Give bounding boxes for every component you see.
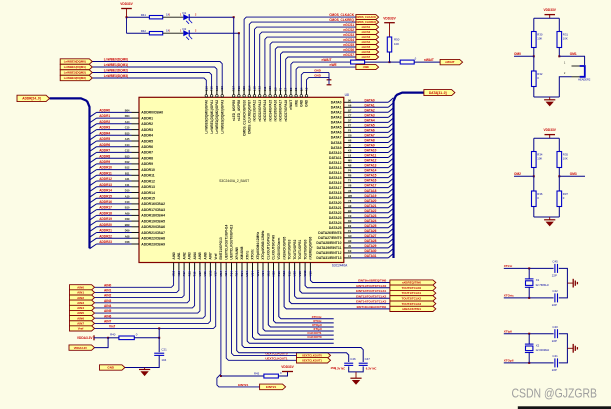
pin nGCS7/GPA18 (top) xyxy=(285,90,287,95)
svg-text:S3C2440A: S3C2440A xyxy=(332,263,348,267)
svg-text:10K: 10K xyxy=(394,42,399,46)
pin AIN7 (bottom) xyxy=(209,263,211,271)
svg-text:DATA2: DATA2 xyxy=(331,111,342,115)
wire LnWBE3(DQM3) xyxy=(92,78,206,90)
svg-text:ADDR18/CBA4: ADDR18/CBA4 xyxy=(141,214,165,218)
wire xyxy=(189,16,234,18)
net label LnWBE0(DQM0) xyxy=(60,59,92,64)
wire VDDi xyxy=(247,270,334,343)
wire DATA31 xyxy=(352,257,389,259)
svg-text:ADDR12: ADDR12 xyxy=(141,179,155,183)
svg-text:TOUT0/TCLK0: TOUT0/TCLK0 xyxy=(402,286,422,290)
svg-text:ADDR23/CBA9: ADDR23/CBA9 xyxy=(141,242,165,246)
wire DATA18 xyxy=(352,192,389,194)
net label TOUT2/TCLK2 xyxy=(390,296,436,301)
wire xyxy=(558,207,560,218)
wire XTOpll xyxy=(268,270,333,327)
pin nGCS3/GPA14 (top) xyxy=(264,90,266,95)
svg-text:nGCS5: nGCS5 xyxy=(343,43,354,47)
net label AIN4 xyxy=(70,305,95,310)
svg-text:DATA11: DATA11 xyxy=(365,154,377,158)
svg-text:UEXTCLKOUT0: UEXTCLKOUT0 xyxy=(302,354,322,358)
svg-text:DATA18: DATA18 xyxy=(329,191,342,195)
svg-text:R41: R41 xyxy=(141,13,147,17)
svg-text:XP/AIN9: XP/AIN9 xyxy=(235,247,239,260)
wire DATA6 xyxy=(352,131,389,133)
bus entry ADDR0 xyxy=(90,112,97,117)
net label nXBACK/TIN1 xyxy=(390,306,436,311)
wire DATA4 xyxy=(352,121,389,123)
svg-text:AIN7: AIN7 xyxy=(209,252,213,259)
svg-text:nGCS2/GPA13: nGCS2/GPA13 xyxy=(258,100,262,122)
wire xyxy=(94,337,108,339)
pin DATA31 (right) xyxy=(344,257,352,259)
pin ADDR10 (left) xyxy=(132,169,140,171)
svg-text:DATA10: DATA10 xyxy=(329,151,342,155)
bus entry DATA14 xyxy=(388,168,393,173)
bus entry DATA19 xyxy=(388,193,393,198)
pin TOUT1/GPB1 (bottom) xyxy=(299,263,301,271)
svg-text:DATA6: DATA6 xyxy=(331,131,342,135)
svg-text:V8: V8 xyxy=(348,189,352,193)
resistor R48 value 0 xyxy=(351,60,365,64)
svg-text:E7: E7 xyxy=(348,124,352,128)
pin DATA29 (right) xyxy=(344,247,352,249)
pin nWAIT (top) xyxy=(290,90,292,95)
junction Vref/RC xyxy=(158,327,160,329)
pin CMOS_CLKACK/GPB10 (top) xyxy=(243,90,245,95)
ground xyxy=(144,368,146,370)
svg-text:CSDN @GJZGRB: CSDN @GJZGRB xyxy=(512,387,598,401)
wire ADDR3 xyxy=(97,129,132,131)
wire xyxy=(390,61,401,63)
net label AIN7 xyxy=(70,321,95,326)
svg-text:22P: 22P xyxy=(552,303,557,307)
wire DATA30 xyxy=(352,252,389,254)
svg-text:B12: B12 xyxy=(125,166,130,170)
bus entry ADDR10 xyxy=(90,170,97,175)
svg-text:DATA29/EINT11: DATA29/EINT11 xyxy=(317,246,342,250)
svg-text:DATA13: DATA13 xyxy=(329,166,342,170)
pin ADDR0 (left) xyxy=(132,111,140,113)
bus entry ADDR20 xyxy=(90,227,97,232)
bus entry ADDR6 xyxy=(90,147,97,152)
svg-text:DATA0: DATA0 xyxy=(331,101,342,105)
svg-text:ADDR4: ADDR4 xyxy=(141,134,153,138)
pin AIN1 (bottom) xyxy=(178,263,180,271)
svg-text:XTIpll/OM4:12MHz: XTIpll/OM4:12MHz xyxy=(256,232,260,260)
svg-text:CLKOUT0/GPH9: CLKOUT0/GPH9 xyxy=(272,235,276,260)
pin nXBACK/GPB5 (bottom) xyxy=(283,263,285,271)
wire xyxy=(349,366,364,372)
svg-text:R8: R8 xyxy=(348,174,352,178)
bus entry DATA15 xyxy=(388,173,393,178)
pin ADDR22 (left) xyxy=(132,237,140,239)
bus entry ADDR12 xyxy=(90,181,97,186)
svg-text:32.768KHz: 32.768KHz xyxy=(536,283,550,287)
power VDD33V pull-up xyxy=(384,22,395,24)
resistor R49 value 0 xyxy=(400,60,414,64)
svg-text:DATA8: DATA8 xyxy=(365,139,375,143)
svg-text:ADDR2: ADDR2 xyxy=(141,122,153,126)
svg-text:UEXTCLKOUT0/GPH13: UEXTCLKOUT0/GPH13 xyxy=(230,224,234,259)
svg-text:TOUT2/TCLK2: TOUT2/TCLK2 xyxy=(402,297,422,301)
wire DATA14 xyxy=(352,172,389,174)
svg-text:U8: U8 xyxy=(348,184,352,188)
svg-text:ADDR1: ADDR1 xyxy=(141,116,153,120)
pin ADDR8 (left) xyxy=(132,157,140,159)
svg-text:10K: 10K xyxy=(537,37,542,41)
svg-text:H8: H8 xyxy=(348,139,352,143)
wire ADDR10 xyxy=(97,169,132,171)
svg-text:LnWBE3(DQM3)/GPA3: LnWBE3(DQM3)/GPA3 xyxy=(220,100,224,134)
pin nWE (top) xyxy=(295,90,297,95)
svg-text:104: 104 xyxy=(161,358,166,362)
wire xyxy=(533,48,535,57)
wire nGCS3 xyxy=(265,37,356,90)
svg-text:C21: C21 xyxy=(161,348,167,352)
svg-text:ADDR4: ADDR4 xyxy=(99,131,110,135)
pin LnWBE2(DQM2) (top) xyxy=(211,90,213,95)
svg-text:nWAIT: nWAIT xyxy=(289,100,293,110)
bus entry DATA11 xyxy=(388,153,393,158)
svg-text:nGCS7: nGCS7 xyxy=(362,55,371,59)
pin LnWBE1(DQM1) (top) xyxy=(216,90,218,95)
wire AIN2 xyxy=(95,270,185,298)
wire Vref xyxy=(95,270,216,328)
pin ADDR6 (left) xyxy=(132,146,140,148)
svg-text:XTIrtc: XTIrtc xyxy=(504,264,513,268)
pin ADDR17 (left) xyxy=(132,209,140,211)
svg-text:AIN0: AIN0 xyxy=(77,285,84,289)
pin DATA17 (right) xyxy=(344,187,352,189)
svg-text:nWE: nWE xyxy=(294,100,298,107)
bus entry ADDR1 xyxy=(90,118,97,123)
wire ADDR19 xyxy=(97,220,132,222)
pin ADDR21 (left) xyxy=(132,232,140,234)
wire AIN7 xyxy=(95,270,211,323)
svg-text:ADDR0/CBA0: ADDR0/CBA0 xyxy=(141,111,163,115)
bus entry DATA22 xyxy=(388,208,393,213)
bus entry DATA13 xyxy=(388,163,393,168)
svg-text:DATA7: DATA7 xyxy=(365,134,375,138)
wire TOUT3/TCLK3 xyxy=(289,270,390,304)
svg-text:VDD33V: VDD33V xyxy=(281,365,294,369)
svg-text:DATA8: DATA8 xyxy=(331,141,342,145)
bus entry ADDR3 xyxy=(90,130,97,135)
IC U8 body S3C2440A xyxy=(139,97,344,262)
svg-text:OM2: OM2 xyxy=(514,172,521,176)
svg-text:DATA10: DATA10 xyxy=(365,149,377,153)
pin ADDR14 (left) xyxy=(132,192,140,194)
svg-text:GND: GND xyxy=(300,99,304,107)
svg-text:VDD33V: VDD33V xyxy=(120,2,133,6)
svg-text:DATA23: DATA23 xyxy=(329,216,342,220)
wire ADDR0 xyxy=(97,111,132,113)
svg-text:AIN6: AIN6 xyxy=(104,314,111,318)
svg-text:DATA9: DATA9 xyxy=(331,146,342,150)
pin TOUT3/GPB3 (bottom) xyxy=(288,263,290,271)
wire DATA17 xyxy=(352,187,389,189)
pin DATA25 (right) xyxy=(344,227,352,229)
junction xyxy=(528,333,530,335)
svg-text:ADDR5: ADDR5 xyxy=(99,137,110,141)
svg-text:DATA[31..0]: DATA[31..0] xyxy=(429,91,447,95)
wire ADDR11 xyxy=(97,174,132,176)
net label ADDR[24..0] xyxy=(17,95,50,101)
svg-text:ADDR18: ADDR18 xyxy=(99,212,112,216)
svg-text:DATA14: DATA14 xyxy=(329,171,342,175)
pin DATA3 (right) xyxy=(344,116,352,118)
net label LnWBE2(DQM2) xyxy=(60,70,92,75)
wire xyxy=(278,372,287,377)
net label nGCS6 xyxy=(356,50,379,55)
wire GND xyxy=(307,78,330,90)
svg-text:nGCS3: nGCS3 xyxy=(362,35,371,39)
svg-text:LnWBE2(DQM2)/GPA2: LnWBE2(DQM2)/GPA2 xyxy=(215,100,219,134)
svg-text:AIN5: AIN5 xyxy=(198,252,202,259)
bus entry DATA6 xyxy=(388,128,393,132)
net label EINT21 xyxy=(260,384,286,390)
wire DATA3 xyxy=(352,116,389,118)
bus DATA[31..0] xyxy=(394,93,424,258)
wire LED row 1 xyxy=(127,16,150,18)
svg-text:ADDR8: ADDR8 xyxy=(99,154,110,158)
pin nXBREQ/GPB6 (bottom) xyxy=(309,263,311,271)
wire nGCS5 xyxy=(275,47,356,90)
pin DATA0 (right) xyxy=(344,101,352,103)
bus entry DATA8 xyxy=(388,138,393,143)
net label nXBREQ/TIN0 xyxy=(390,280,436,285)
svg-text:LnWBE3(DQM3): LnWBE3(DQM3) xyxy=(104,74,128,78)
wire AIN1 xyxy=(95,270,179,292)
pin AIN2 (bottom) xyxy=(183,263,185,271)
svg-text:C9: C9 xyxy=(348,214,352,218)
bus entry DATA10 xyxy=(388,148,393,153)
pin ADDR12 (left) xyxy=(132,180,140,182)
junction node OM0 xyxy=(533,55,535,57)
bus entry DATA21 xyxy=(388,203,393,208)
svg-text:LnWBE2(DQM2): LnWBE2(DQM2) xyxy=(104,69,128,73)
pin XTOrtc (bottom) xyxy=(252,263,254,271)
junction xyxy=(528,297,530,299)
svg-text:DATA25: DATA25 xyxy=(329,226,342,230)
wire rail xyxy=(534,137,560,139)
net label AIN0 xyxy=(70,285,95,290)
wire xyxy=(559,77,571,97)
svg-text:ADDR19: ADDR19 xyxy=(99,217,112,221)
svg-text:DATA16: DATA16 xyxy=(329,181,342,185)
svg-text:DATA20: DATA20 xyxy=(365,199,377,203)
svg-text:DATA0: DATA0 xyxy=(365,98,375,102)
pin ADDR3 (left) xyxy=(132,129,140,131)
bus ADDR[24..0] xyxy=(50,98,90,248)
svg-text:XTOrtc: XTOrtc xyxy=(504,294,514,298)
capacitor C41 22P xyxy=(554,358,556,367)
svg-text:DATA20: DATA20 xyxy=(329,201,342,205)
wire LED row 2 xyxy=(127,32,150,34)
pin Vref (bottom) xyxy=(215,263,217,271)
wire AIN3 xyxy=(95,270,190,303)
pin ADDR7 (left) xyxy=(132,151,140,153)
svg-text:XTIpll: XTIpll xyxy=(504,329,512,333)
svg-text:ADDR15: ADDR15 xyxy=(99,194,112,198)
svg-text:VDDA3.3V: VDDA3.3V xyxy=(74,346,87,350)
bus entry DATA30 xyxy=(388,248,393,253)
svg-text:ADDR16/CBA2: ADDR16/CBA2 xyxy=(141,202,165,206)
svg-text:EINT12/TOUT1/TCLK1: EINT12/TOUT1/TCLK1 xyxy=(356,289,387,293)
svg-text:ADDR6: ADDR6 xyxy=(141,145,153,149)
bus entry DATA31 xyxy=(388,253,393,258)
wire ADDR13 xyxy=(97,186,132,188)
wire DATA11 xyxy=(352,157,389,159)
svg-text:ADDR21: ADDR21 xyxy=(99,229,112,233)
pin XTIrtc (bottom) xyxy=(246,263,248,271)
pin EINT21/GPG13 (bottom) xyxy=(220,263,222,271)
svg-text:nWAIT: nWAIT xyxy=(424,58,434,62)
svg-text:B15: B15 xyxy=(125,131,130,135)
wire TOUT1/TCLK1 xyxy=(300,270,390,293)
svg-text:nXBREQ/GPB6: nXBREQ/GPB6 xyxy=(309,236,313,259)
svg-text:C09: C09 xyxy=(125,217,130,221)
svg-text:CLKOUT0: CLKOUT0 xyxy=(307,335,321,339)
pin DATA7 (right) xyxy=(344,136,352,138)
svg-text:10K: 10K xyxy=(563,37,568,41)
wire ADDR23 xyxy=(97,243,132,245)
svg-text:DATA25: DATA25 xyxy=(365,224,377,228)
svg-text:VDD33V: VDD33V xyxy=(543,128,556,132)
svg-text:nGCS4: nGCS4 xyxy=(362,40,371,44)
svg-text:DATA13: DATA13 xyxy=(365,164,377,168)
svg-text:Y8: Y8 xyxy=(348,199,352,203)
svg-text:K8: K8 xyxy=(348,149,352,153)
svg-text:OM0: OM0 xyxy=(514,52,521,56)
wire ADDR1 xyxy=(97,117,132,119)
junction xyxy=(233,16,235,18)
svg-text:LnWBE1(DQM1): LnWBE1(DQM1) xyxy=(104,63,128,67)
svg-text:ADDR5: ADDR5 xyxy=(141,139,153,143)
svg-text:ADDR8: ADDR8 xyxy=(141,157,153,161)
bus entry DATA12 xyxy=(388,158,393,163)
svg-text:ADDR7: ADDR7 xyxy=(141,151,153,155)
svg-text:D9: D9 xyxy=(348,219,352,223)
bus entry ADDR5 xyxy=(90,141,97,146)
wire nWE xyxy=(296,67,356,90)
svg-text:D1: D1 xyxy=(183,11,187,15)
net label nGCS1 xyxy=(356,25,379,30)
svg-text:B10: B10 xyxy=(125,206,130,210)
wire DATA24 xyxy=(352,222,389,224)
wire EINT21 jog xyxy=(217,270,260,387)
bus entry ADDR13 xyxy=(90,187,97,192)
wire ADDR14 xyxy=(97,192,132,194)
wire XTIrtc xyxy=(504,267,554,269)
net label DATA[31..0] xyxy=(424,90,455,96)
wire xyxy=(238,33,240,90)
svg-text:DATA17: DATA17 xyxy=(329,186,342,190)
wire ADDR12 xyxy=(97,180,132,182)
pin AIN6 (bottom) xyxy=(204,263,206,271)
pin LnWBE0(DQM0) (top) xyxy=(221,90,223,95)
svg-text:H9: H9 xyxy=(348,239,352,243)
svg-text:DATA11: DATA11 xyxy=(329,156,342,160)
wire xyxy=(414,61,440,63)
svg-text:VDDi/VDDiarm: VDDi/VDDiarm xyxy=(277,237,281,259)
svg-text:AIN4: AIN4 xyxy=(104,304,111,308)
svg-text:XTOrtc: XTOrtc xyxy=(251,249,255,260)
svg-text:DATA4: DATA4 xyxy=(365,119,375,123)
bus entry ADDR14 xyxy=(90,193,97,198)
power VDD33V xyxy=(282,371,293,373)
pin TOUT2/GPB2 (bottom) xyxy=(294,263,296,271)
svg-text:DATA22: DATA22 xyxy=(365,209,377,213)
pin nLED_8/GPB9 (top) xyxy=(233,90,235,95)
svg-text:UEXTCLKOUT1/GPH14: UEXTCLKOUT1/GPH14 xyxy=(224,224,228,259)
net label GND xyxy=(100,365,125,370)
svg-text:DATA30/EINT12: DATA30/EINT12 xyxy=(316,251,341,255)
svg-text:DATA18: DATA18 xyxy=(365,189,377,193)
bus entry DATA3 xyxy=(388,113,393,118)
svg-text:DATA4: DATA4 xyxy=(331,121,342,125)
svg-text:nWE: nWE xyxy=(363,65,369,69)
pin XP/AIN9 (bottom) xyxy=(236,263,238,271)
wire xyxy=(108,337,119,339)
wire xyxy=(389,52,391,62)
pin nGCS6/GPA17 (top) xyxy=(280,90,282,95)
ground xyxy=(544,219,555,221)
wire ADDR7 xyxy=(97,151,132,153)
wire nGCS7 xyxy=(286,57,356,90)
svg-text:DATA3: DATA3 xyxy=(331,116,342,120)
resistor R50 10K pull-up xyxy=(387,37,391,52)
pin DATA14 (right) xyxy=(344,172,352,174)
wire xyxy=(189,32,239,34)
bus entry ADDR11 xyxy=(90,175,97,180)
wire nGCS1 xyxy=(255,27,356,90)
wire DATA7 xyxy=(352,136,389,138)
svg-text:EINT10/nXBACK/TIN1: EINT10/nXBACK/TIN1 xyxy=(357,305,387,309)
wire CMOS_CLKREQ xyxy=(249,22,356,90)
svg-text:C40: C40 xyxy=(552,325,558,329)
svg-text:LnWBE2(DQM2): LnWBE2(DQM2) xyxy=(64,71,86,75)
svg-text:nGCS5/GPA16: nGCS5/GPA16 xyxy=(274,100,278,122)
power VDD33V (LED circuit) xyxy=(121,8,132,10)
svg-text:ADDR13: ADDR13 xyxy=(99,183,112,187)
svg-text:DATA30: DATA30 xyxy=(365,249,377,253)
net label VDDA3.3V xyxy=(69,345,95,350)
svg-text:C46: C46 xyxy=(350,357,356,361)
svg-text:ADDR16: ADDR16 xyxy=(99,200,112,204)
svg-text:DATA15: DATA15 xyxy=(365,174,377,178)
junction node OM1 xyxy=(558,55,560,57)
wire UEXTCLKOUT0 xyxy=(232,270,297,355)
wire LnWBE1(DQM1) xyxy=(92,67,217,90)
wire DATA29 xyxy=(352,247,389,249)
svg-text:DATA19: DATA19 xyxy=(329,196,342,200)
svg-text:DATA27: DATA27 xyxy=(365,234,377,238)
svg-text:AIN7: AIN7 xyxy=(77,322,84,326)
pin ADDR5 (left) xyxy=(132,140,140,142)
net label UEXTCLKOUT0 xyxy=(297,353,331,358)
svg-text:K9: K9 xyxy=(348,249,352,253)
pin LnWBE3(DQM3) (top) xyxy=(205,90,207,95)
svg-text:Vref: Vref xyxy=(78,327,84,331)
resistor R31 10K xyxy=(558,18,560,31)
svg-text:TOUT2/GPB2: TOUT2/GPB2 xyxy=(293,239,297,259)
svg-text:AIN4: AIN4 xyxy=(193,252,197,259)
net label CMOS_CLKACK xyxy=(356,15,379,20)
svg-text:ADDR13: ADDR13 xyxy=(141,185,155,189)
